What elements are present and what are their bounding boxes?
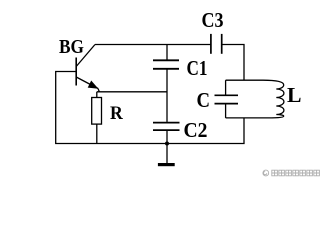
svg-text:BG: BG	[59, 36, 84, 58]
svg-text:C: C	[197, 88, 211, 112]
svg-text:R: R	[110, 104, 123, 124]
svg-text:C1: C1	[187, 56, 208, 80]
svg-text:C3: C3	[202, 8, 224, 32]
svg-text:C2: C2	[184, 118, 208, 142]
svg-text:L: L	[287, 83, 302, 107]
